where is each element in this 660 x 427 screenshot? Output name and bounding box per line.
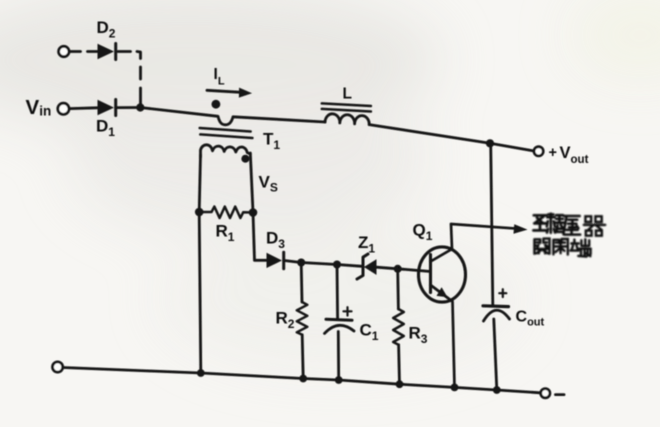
wire D1 to node A (117, 106, 140, 109)
char 至 (533, 215, 547, 230)
capacitor Cout top plate (483, 304, 509, 308)
resistor R1 (199, 207, 253, 218)
wire R1 left down to bottom rail (199, 212, 201, 373)
char 壓 (563, 216, 580, 235)
wire node B down to R2 (300, 263, 304, 303)
diode D1 (98, 100, 115, 115)
terminal bottom right (-) (541, 389, 550, 398)
capacitor C1 top plate (326, 318, 352, 322)
zener Z1 (357, 254, 368, 279)
dashed wire D2 to node A (118, 52, 141, 108)
chinese note line1: 至穩壓器 (533, 214, 605, 236)
wire Z1 to node D (377, 267, 398, 269)
wire R1 right down to D3 (253, 213, 266, 261)
IL phase dot (212, 100, 221, 109)
arrow to regulator shutdown (514, 224, 528, 234)
Q1 collector (431, 224, 519, 262)
wire L to output node (369, 125, 533, 151)
rail junction dot (C1) (335, 376, 343, 384)
main top wire with T1 primary loop (140, 108, 325, 125)
rail junction dot (Q1 emitter) (451, 384, 459, 392)
node R1 right dot (249, 208, 258, 217)
rail junction dot (left vertical) (197, 369, 205, 377)
wire Vout node down to Cout (491, 143, 493, 305)
rail junction dot (R3) (396, 380, 404, 388)
char 器 (584, 216, 605, 235)
node R1 left dot (195, 208, 204, 217)
node C junction dot (C1 top) (333, 261, 341, 269)
wire secondary left to R1 (199, 155, 200, 212)
wire C1 to bottom rail (337, 332, 340, 381)
wire node D down to R3 (396, 269, 399, 309)
wire secondary right to R1 (250, 153, 253, 212)
resistor R3 (393, 309, 404, 345)
wire D3 to node B (285, 261, 301, 263)
C1 plus sign (344, 307, 352, 315)
wire R2 to bottom rail (302, 335, 303, 379)
svg-text:+: + (549, 145, 557, 161)
char 穩 (547, 214, 564, 233)
T1 secondary phase dot (241, 155, 249, 163)
wire node B to node C (301, 263, 337, 265)
capacitor Cout bottom plate (484, 310, 510, 321)
wire node D to Q1 base (398, 269, 431, 272)
char 關 (534, 239, 549, 254)
wire node C to Z1 (337, 265, 362, 267)
char 端 (570, 239, 590, 256)
terminal Vin (58, 103, 69, 114)
transistor Q1 body circle (419, 247, 466, 302)
char 閉 (553, 239, 567, 255)
terminal bottom left (53, 362, 63, 372)
wire terminal to D2 (70, 50, 98, 53)
capacitor C1 bottom plate (325, 325, 355, 333)
transformer T1 core lines (200, 128, 253, 138)
svg-text:L: L (343, 86, 352, 103)
resistor R2 (297, 302, 308, 335)
IL arrow (207, 90, 239, 92)
node A junction dot (136, 103, 144, 111)
node B junction dot (R2 top) (297, 259, 305, 267)
wire node C down to C1 (336, 265, 339, 320)
transformer T1 secondary coil (201, 145, 251, 157)
chinese note line2: 關閉端 (534, 239, 590, 257)
Q1 emitter with arrow (431, 285, 455, 388)
Cout plus sign (499, 289, 506, 297)
rail junction dot (R2) (299, 375, 307, 383)
node Vout junction dot (486, 139, 494, 147)
inductor L core lines (322, 103, 371, 111)
Q1 base bar (429, 255, 432, 293)
terminal +Vout (534, 147, 543, 156)
inductor L coil (325, 114, 369, 125)
wire R3 to bottom rail (397, 345, 401, 384)
label minus (556, 393, 565, 396)
rail junction dot (Cout) (493, 386, 501, 394)
wire Vin to D1 (70, 106, 98, 110)
terminal input top (D2 branch) (59, 46, 69, 56)
diode D2 (98, 44, 115, 59)
wire Cout to bottom rail (494, 319, 497, 390)
bottom rail wire (63, 368, 540, 393)
diode D3 (267, 253, 283, 268)
node D junction dot (R3 top / base) (394, 265, 402, 273)
